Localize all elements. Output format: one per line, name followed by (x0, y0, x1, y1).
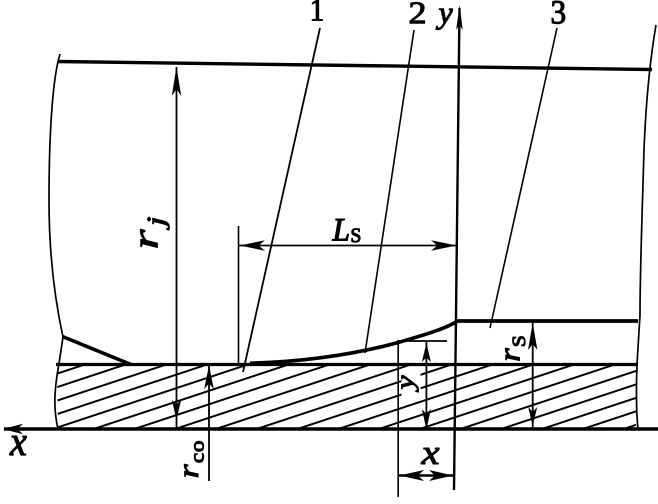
right break line (636, 25, 656, 429)
r_s dimension line (532, 322, 534, 430)
x dim right arrowhead (429, 470, 453, 481)
r_co arrowhead (204, 366, 214, 390)
x dim left arrowhead (400, 470, 425, 481)
y dim top arrowhead (422, 343, 431, 362)
r_j top arrowhead (172, 67, 181, 97)
y dim label halo (402, 371, 421, 396)
label 2 (410, 2, 425, 23)
leader line 2 (365, 30, 414, 353)
y dim bottom arrowhead (422, 409, 431, 430)
y dim label (402, 375, 419, 392)
sleeve step top line (456, 319, 638, 323)
r_j label (140, 217, 169, 247)
L_s left arrowhead (240, 240, 266, 250)
y axis label (436, 9, 453, 30)
left break line (49, 54, 63, 429)
r_s top arrowhead (528, 323, 537, 350)
L_s label (332, 219, 360, 242)
x axis arrowhead (3, 424, 23, 434)
L_s dimension line (239, 245, 456, 247)
x dim label (421, 448, 439, 464)
L_s extension line (238, 226, 240, 364)
leader line 1 (243, 28, 320, 372)
label 1 (312, 0, 322, 21)
L_s right arrowhead (431, 240, 457, 250)
journal surface top line (58, 62, 652, 70)
y axis arrowhead (456, 5, 463, 30)
r_s bottom arrowhead (528, 407, 537, 426)
label 3 (552, 1, 565, 24)
y axis (454, 8, 460, 490)
x dimension extension line (397, 341, 399, 497)
leader line 3 (490, 28, 557, 328)
r_j dimension line (176, 67, 178, 429)
film profile curve (250, 321, 458, 363)
r_j bottom arrowhead (172, 400, 181, 420)
wedge inlet line (63, 337, 132, 365)
r_s label (505, 337, 525, 361)
x dimension line (398, 474, 454, 476)
hatched bearing cross-section (57, 366, 638, 428)
x axis (4, 427, 658, 431)
r_co dimension line (208, 366, 210, 481)
x axis label (10, 436, 27, 455)
bearing bore top line (hatch top) (56, 363, 638, 366)
r_co label (184, 441, 203, 477)
y dimension line (425, 342, 427, 430)
y dimension extension bar (397, 340, 447, 342)
